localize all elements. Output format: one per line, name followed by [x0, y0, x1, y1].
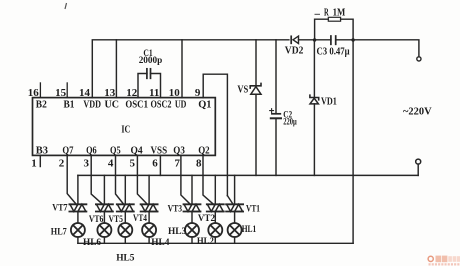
wire: top supply rail from VDD [92, 40, 289, 98]
scan artifact dash near R [315, 13, 321, 15]
svg-text:Q1: Q1 [198, 98, 211, 110]
svg-text:8: 8 [196, 157, 202, 169]
svg-text:Q3: Q3 [173, 144, 185, 156]
svg-text:B2: B2 [36, 98, 47, 110]
wire: VT3 MT2 from bus [191, 175, 193, 204]
svg-text:Q2: Q2 [198, 144, 210, 156]
node: junction rail / R-C3 right / lamp-bus feeder [351, 38, 354, 41]
wire: VT1 MT2 from bus [234, 175, 236, 204]
svg-text:Q6: Q6 [86, 144, 97, 156]
lamp HL5 [118, 223, 132, 237]
svg-text:VD1: VD1 [321, 96, 337, 107]
svg-text:14: 14 [79, 87, 91, 99]
wire: VT6 to HL6 [103, 212, 105, 224]
svg-text:HL6: HL6 [83, 238, 101, 248]
svg-text:HL4: HL4 [151, 238, 169, 248]
svg-text:Q4: Q4 [131, 144, 144, 156]
capacitor C2 electrolytic [270, 40, 281, 176]
svg-text:B3: B3 [36, 144, 49, 156]
IC pin 11 (OSC2) [149, 87, 172, 110]
svg-text:HL5: HL5 [116, 253, 135, 263]
svg-text:2000p: 2000p [139, 56, 163, 66]
svg-text:11: 11 [149, 87, 159, 99]
wire: gate feed to VT1 [227, 196, 233, 205]
svg-text:IC: IC [121, 123, 130, 135]
triac VT4 [141, 204, 158, 211]
svg-text:VDD: VDD [83, 98, 101, 110]
wire: VT7 MT2 from bus [77, 175, 79, 204]
wire: VT2 to HL2 [214, 212, 216, 224]
svg-text:6: 6 [152, 157, 158, 169]
svg-text:VT6: VT6 [89, 215, 104, 225]
wire: HL3 to lamp bus [191, 237, 193, 243]
wire: gate feed to VT2 [203, 155, 214, 204]
wire: gate feed to VT6 [91, 155, 103, 204]
wire: VSS pin6 to bus [159, 155, 161, 175]
wire: gate feed to VT3 [181, 155, 191, 204]
wire: UC pin13 drop from rail [115, 40, 117, 98]
wire: VT1 to HL1 [234, 212, 236, 224]
IC pin 13 (UC) [104, 87, 119, 110]
svg-text:VD2: VD2 [285, 46, 304, 57]
IC pin 1 (B3) [31, 144, 48, 169]
wire: VT5 to HL5 [124, 212, 126, 224]
wire: rail from VD2 junction to C3 [315, 39, 331, 41]
svg-text:R: R [324, 8, 329, 19]
wire: VT5 MT2 from bus [124, 175, 126, 204]
zener VS [250, 40, 261, 176]
svg-text:VT4: VT4 [133, 214, 147, 224]
wire: HL1 to lamp bus [234, 237, 236, 243]
wire: HL6 to lamp bus [103, 237, 105, 243]
IC pin 16 (B2) [28, 82, 48, 110]
wire: pin1 B3 stub [39, 155, 41, 166]
svg-text:OSC1: OSC1 [125, 98, 148, 110]
IC pin 14 (VDD) [79, 87, 101, 110]
svg-text:7: 7 [175, 157, 181, 169]
svg-text:VT2: VT2 [198, 214, 215, 224]
diode VD2 [291, 36, 314, 43]
svg-text:HL7: HL7 [51, 228, 67, 238]
wire: HL2 to lamp bus [214, 237, 216, 243]
triac VT7 [69, 204, 86, 211]
svg-text:4: 4 [108, 157, 114, 169]
wire: gate feed to VT4 [137, 155, 148, 204]
lamp HL6 [97, 223, 111, 237]
lamp HL1 [228, 223, 242, 237]
resistor R [315, 17, 354, 40]
IC pin 4 (Q5) [108, 144, 121, 169]
triac VT6 [96, 204, 113, 211]
IC pin 3 (Q6) [84, 144, 98, 169]
lamp HL4 [142, 223, 156, 237]
svg-text:UD: UD [175, 98, 187, 110]
node: junction rail / VD1 / R-C3 left [313, 38, 316, 41]
svg-text:Q7: Q7 [62, 144, 73, 156]
watermark logo (red) [428, 256, 460, 266]
IC pin 15 (B1) [55, 82, 74, 110]
svg-text:12: 12 [126, 87, 138, 99]
triac VT2 [207, 204, 224, 211]
svg-text:Q5: Q5 [110, 144, 121, 156]
wire: VT6 MT2 from bus [103, 175, 105, 204]
wire: lamp bottom bus [78, 242, 353, 244]
wire: VT3 to HL3 [191, 212, 193, 224]
triac VT5 [117, 204, 134, 211]
IC pin 7 (Q3) [173, 144, 185, 169]
svg-text:VSS: VSS [151, 144, 168, 156]
lamp HL3 [185, 223, 199, 237]
IC pin 2 (Q7) [59, 144, 74, 169]
IC pin 9 (Q1) [195, 87, 212, 110]
svg-text:9: 9 [195, 87, 201, 99]
svg-text:HL2: HL2 [197, 237, 214, 247]
svg-text:16: 16 [28, 87, 40, 99]
svg-text:~220V: ~220V [403, 105, 432, 117]
wire: UD pin10 drop from rail [181, 40, 183, 98]
IC pin 5 (Q4) [130, 144, 144, 169]
svg-text:5: 5 [130, 157, 136, 169]
svg-text:OSC2: OSC2 [151, 98, 172, 110]
svg-text:VT1: VT1 [246, 204, 260, 214]
svg-text:C3 0.47μ: C3 0.47μ [317, 46, 350, 57]
IC pin 8 (Q2) [196, 144, 210, 169]
capacitor C3 [331, 36, 353, 44]
wire: VT4 MT2 from bus [148, 175, 150, 204]
svg-text:UC: UC [105, 98, 120, 110]
terminal: top AC [417, 57, 421, 61]
wire: VT7 to HL7 [77, 212, 79, 224]
zener VD1 [310, 40, 319, 175]
svg-text:VT3: VT3 [168, 205, 183, 215]
svg-text:2: 2 [59, 157, 65, 169]
wire: lamp-bus feeder down right side [352, 40, 354, 244]
triac VT3 [184, 204, 201, 211]
svg-text:10: 10 [169, 87, 181, 99]
wire: HL4 to lamp bus [148, 237, 150, 243]
wire: VT4 to HL4 [148, 212, 150, 224]
wire: common bus for triac MT2 and VSS [78, 174, 418, 176]
wire: rail to top AC terminal [353, 40, 419, 57]
IC pin 6 (VSS) [151, 144, 168, 169]
lamp HL2 [208, 223, 222, 237]
svg-text:B1: B1 [64, 98, 75, 110]
svg-text:15: 15 [55, 87, 67, 99]
capacitor C1 [138, 69, 161, 98]
svg-text:VT5: VT5 [109, 215, 124, 225]
IC pin 12 (OSC1) [125, 87, 148, 110]
IC pin 10 (UD) [169, 87, 187, 110]
svg-text:VS: VS [237, 85, 248, 96]
IC U1 body [33, 98, 216, 156]
svg-text:1: 1 [31, 157, 37, 169]
svg-text:220μ: 220μ [283, 118, 297, 128]
wire: Q1 pin9 loop over to VT1 gate column [203, 74, 227, 195]
svg-text:HL1: HL1 [242, 225, 257, 235]
svg-text:HL3: HL3 [168, 227, 186, 237]
lamp HL7 [71, 223, 85, 237]
wire: gate feed to VT5 [116, 155, 125, 204]
svg-text:3: 3 [84, 157, 90, 169]
wire: bus stub to bottom AC terminal [417, 164, 419, 175]
terminal: bottom AC [416, 159, 421, 164]
wire: gate feed to VT7 [67, 155, 77, 204]
triac VT1 [226, 204, 243, 211]
scan speck artifact top [65, 3, 67, 9]
svg-text:VT7: VT7 [52, 203, 68, 213]
wire: HL7 to lamp bus [77, 237, 79, 243]
wire: VT2 MT2 from bus [214, 175, 216, 204]
wire: HL5 to lamp bus [124, 237, 126, 243]
svg-text:13: 13 [104, 87, 116, 99]
svg-text:1M: 1M [333, 7, 346, 18]
